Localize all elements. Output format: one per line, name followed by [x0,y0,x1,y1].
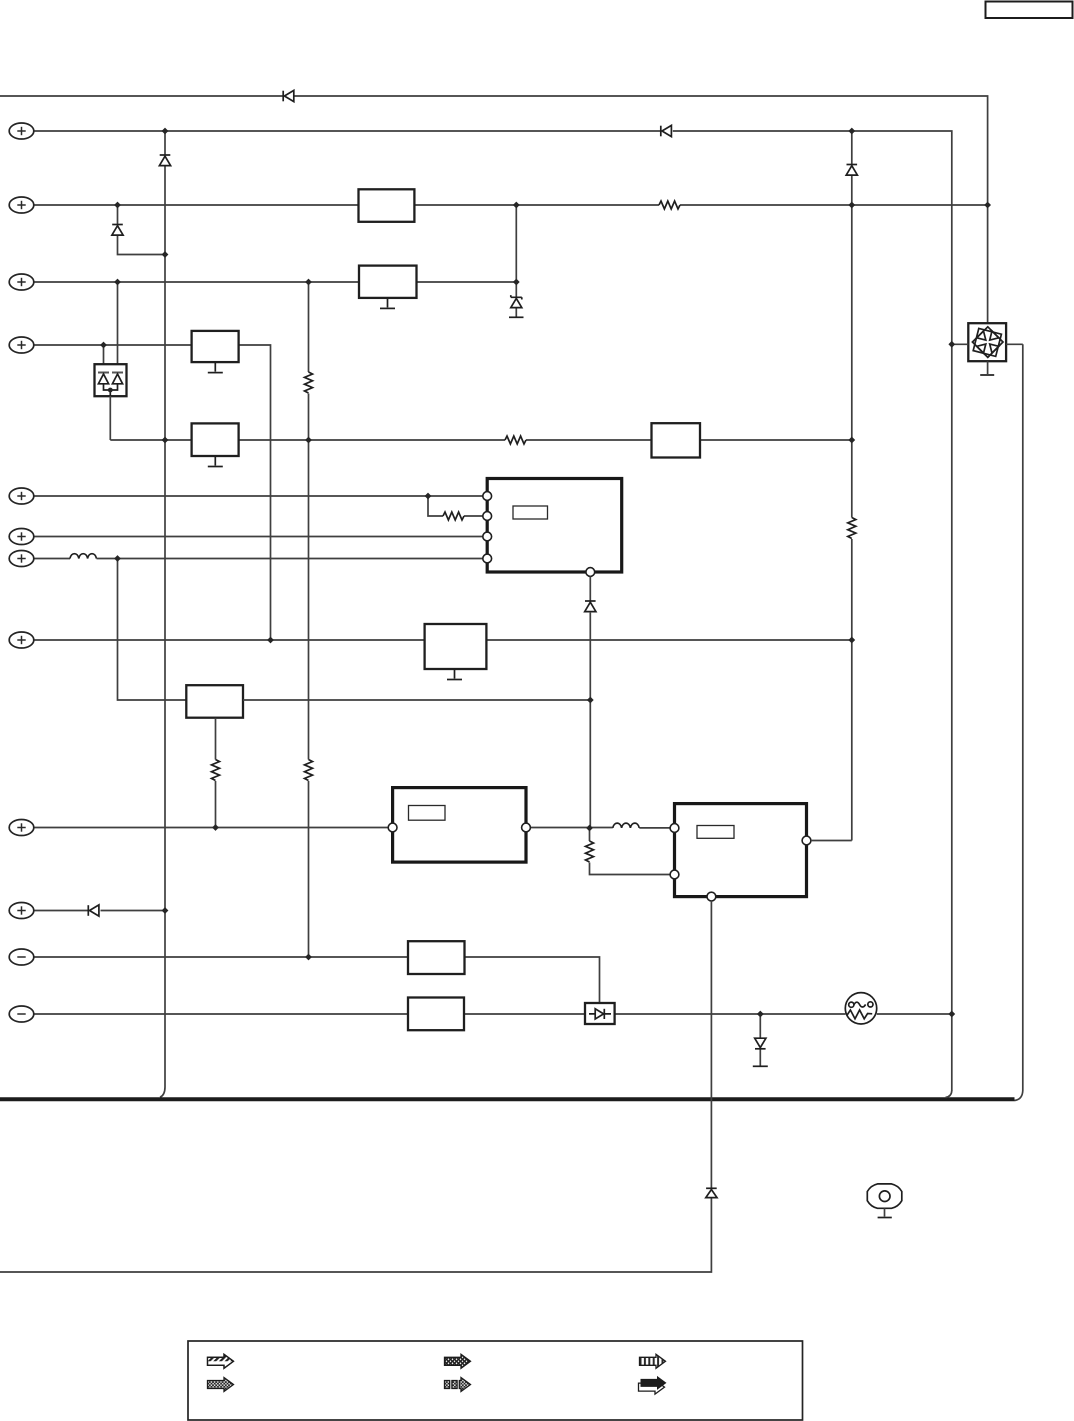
wire J y=827.5 [34,827,675,829]
diode D9 on wire K [88,905,99,916]
wire F y=440 [110,439,852,441]
pin 1 of U10 [670,824,679,833]
legend arrow striped [640,1354,666,1368]
legend arrow hatched [208,1354,234,1368]
wire bridge right pin to x=1022.8 [1006,343,1023,345]
wire vertical x=308.5 [308,282,310,957]
ground G3 under U4 [208,456,223,467]
diode D1 on wire A [283,90,294,101]
resistor R8 [848,518,856,539]
ground G1 under U2 [380,298,395,309]
diode D2 on wire B [661,125,672,136]
connector P11 (-) [9,949,34,965]
wire D y=282 [34,281,517,283]
hybrid IC U10 [675,804,807,897]
connector P3 (+) [9,274,34,290]
block U11 on wire L [408,941,465,974]
block U12 on wire M [408,998,464,1031]
resistor R1 on wire C [659,201,680,209]
wire G2 y=536.5 [34,536,487,538]
block U4 on wire F [192,423,239,456]
wire vertical net V1 x=165 [160,131,165,1097]
resistor R3 [305,372,313,393]
dual diode D6 box [95,364,127,396]
wire U10 bottom pin down x=711.4 [0,901,711,1272]
wire E y=345 [34,345,271,640]
wire curve bus right end up to x=1022.8 [1015,1091,1023,1101]
diode D4 [112,225,123,236]
connector P5 (+) [9,488,34,504]
ground G5 under bridge [987,361,989,374]
pin 4 of U6 [483,554,492,563]
connector P9 (+) [9,820,34,836]
pin 5 of U6 bottom [586,568,595,577]
connector P4 (+) [9,337,34,353]
ground G2 under U3 [208,362,223,373]
wire L y=957 [34,957,600,1003]
wire bridge left pin [952,343,969,345]
block U8 on wire I [186,685,243,718]
legend arrow dashed [445,1378,471,1392]
wire A top horizontal y=96 [0,96,988,323]
resistor R6 [212,760,220,781]
block U5 on wire F [652,423,701,457]
IC U6 main control block [487,479,622,573]
pin right of U9 [522,823,531,832]
legend box [188,1341,803,1420]
legend arrow solid [639,1376,667,1394]
wire H y=640 [34,639,852,641]
zener diode D5 [511,295,522,308]
ground G4 under U7 [447,669,462,680]
wire U8 bottom to resistor R6 [215,718,217,828]
diode D11 branch at x=760 [759,1014,761,1066]
resistor R7 branch at x=589.5 [590,828,675,875]
pin 2 of U10 [670,870,679,879]
pin 2 of U6 [483,512,492,521]
wire K y=910.5 [34,910,165,912]
terminator bar under D11 [753,1065,768,1067]
wire G3 y=558.5 [34,558,487,560]
terminator bar under D5 [509,316,524,318]
inductor L1 on wire G3 [70,554,96,559]
wire G1 y=496 [34,495,487,497]
bridge rectifier DB1 [968,323,1006,361]
wire vertical x=590 pin5 down [589,576,591,828]
wire I continuation to x=590 [243,699,590,701]
ground G6 under S1 [884,1208,886,1216]
connector P10 (+) [9,903,34,919]
wire G1 branch resistor R5 [428,496,487,516]
wire branch C to V1 via D4 [118,205,166,255]
connector P6 (+) [9,529,34,545]
connector P7 (+) [9,551,34,567]
connector P12 (-) [9,1006,34,1022]
wire E junction down to dual diode [103,345,105,372]
diode D12 on x=711.4 [706,1188,717,1197]
wire B y=131 [34,131,952,1091]
pin 4 of U10 bottom [707,892,716,901]
wire D junction down to dual diode [117,282,119,372]
wire dual diode output down to wire F [109,396,111,440]
thermal protector TP1 [845,993,876,1024]
bus thick line y=1099 [0,1097,1015,1101]
block U3 on wire E [192,331,239,362]
block U2 on wire D [359,266,417,298]
zener diode D8 [846,165,857,176]
wire U10 right pin to x=852 [811,840,852,842]
wire I from G3 junction down and right y=700 [118,559,187,701]
inductor L2 on wire J [613,823,639,828]
pin 1 of U6 [483,492,492,501]
wire C y=205 [34,204,988,206]
boxed diode D10 [585,1003,615,1024]
hybrid IC U9 [393,788,526,863]
connector P2 (+) [9,197,34,213]
wire M y=1014 [34,1013,952,1015]
resistor R2 on wire F [505,436,526,444]
pin 3 of U6 [483,532,492,541]
connector P8 (+) [9,632,34,648]
resistor R4 [305,760,313,781]
pin left of U9 [388,823,397,832]
legend arrow checkered [208,1378,234,1392]
wire vertical x=852 [851,131,853,841]
legend arrow crosshatch [445,1354,471,1368]
label box top right [986,2,1073,19]
block U1 on wire C [359,189,415,222]
sensor S1 [867,1184,902,1208]
connector P1 (+) [9,123,34,139]
wire vertical x=516 C to D [515,205,517,317]
block U7 on wire H [425,624,487,669]
diode D3 on V1 [159,155,170,166]
diode D7 [585,601,596,612]
wire curve x=951.8 into bus [946,1091,952,1098]
pin 3 of U10 right [802,836,811,845]
